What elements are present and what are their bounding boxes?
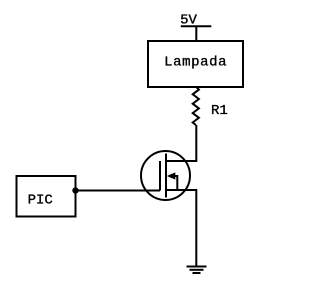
PIC block	[17, 176, 76, 217]
svg-text:PIC: PIC	[28, 192, 53, 208]
transistor Q1 MOSFET body circle	[141, 151, 190, 200]
transistor Q1 substrate arrow	[167, 172, 178, 190]
svg-text:R1: R1	[211, 103, 228, 119]
junction dot at PIC output	[72, 187, 78, 193]
transistor Q1 channel bar	[165, 154, 167, 198]
wire MOSFET source to ground rail	[166, 190, 196, 266]
wire 5V rail to Lampada top	[195, 26, 197, 42]
svg-text:Lampada: Lampada	[164, 55, 227, 71]
wire resistor R1 to MOSFET drain	[166, 125, 196, 161]
resistor R1	[193, 87, 199, 125]
lamp block Lampada	[148, 41, 243, 87]
power 5V rail symbol	[181, 25, 212, 27]
wire PIC output to MOSFET gate	[76, 190, 161, 192]
transistor Q1 gate bar	[159, 161, 161, 191]
ground symbol	[187, 267, 207, 274]
